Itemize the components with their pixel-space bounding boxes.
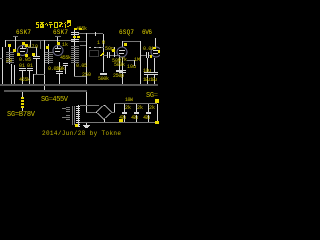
svg-text:455k: 455k: [76, 26, 87, 32]
svg-text:01: 01: [19, 63, 25, 69]
svg-text:6SK7: 6SK7: [53, 29, 68, 36]
svg-text:455k: 455k: [19, 77, 30, 83]
svg-text:2k: 2k: [149, 105, 155, 111]
svg-text:455k: 455k: [60, 55, 71, 61]
svg-text:50p: 50p: [105, 46, 114, 52]
svg-text:0.05: 0.05: [76, 63, 87, 69]
svg-text:SG=B78V: SG=B78V: [7, 111, 36, 119]
svg-text:47k: 47k: [118, 57, 127, 63]
svg-text:1k: 1k: [62, 42, 68, 48]
svg-text:10u: 10u: [150, 77, 157, 83]
svg-text:500k: 500k: [98, 76, 109, 82]
svg-text:470: 470: [28, 44, 38, 50]
svg-text:2k: 2k: [125, 105, 131, 111]
svg-text:2k: 2k: [137, 105, 143, 111]
svg-text:2014/Jun/28 by Tokne: 2014/Jun/28 by Tokne: [42, 130, 121, 137]
svg-text:1M: 1M: [134, 57, 140, 63]
svg-text:6V6: 6V6: [142, 29, 152, 36]
svg-text:6SQ7: 6SQ7: [119, 29, 134, 36]
svg-text:47u: 47u: [143, 115, 150, 121]
svg-text:1M: 1M: [97, 40, 105, 46]
svg-text:10u: 10u: [143, 68, 151, 74]
svg-text:0.01: 0.01: [143, 46, 154, 52]
svg-text:10W: 10W: [125, 97, 133, 103]
svg-text:20k: 20k: [56, 66, 65, 72]
svg-text:47u: 47u: [131, 115, 138, 121]
svg-text:47u: 47u: [119, 115, 126, 121]
svg-text:250: 250: [82, 72, 91, 78]
svg-text:10u: 10u: [143, 77, 150, 83]
svg-text:23: 23: [6, 58, 12, 64]
svg-text:6SK7: 6SK7: [16, 29, 31, 36]
svg-text:SG=455V: SG=455V: [41, 96, 69, 104]
svg-text:250p: 250p: [113, 73, 124, 79]
svg-text:10u: 10u: [127, 64, 136, 70]
svg-text:01: 01: [27, 63, 33, 69]
